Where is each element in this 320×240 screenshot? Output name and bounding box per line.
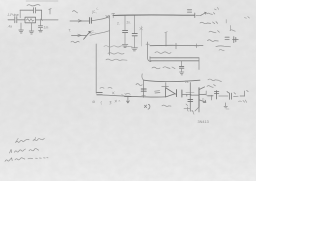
svg-text:{: { <box>101 100 103 104</box>
wire audio bus left segment <box>103 95 166 97</box>
crystal Y1 box <box>25 17 36 23</box>
Q1 emitter stroke with arrow <box>199 100 206 103</box>
label top-right small <box>214 7 218 9</box>
wire filter bottom rail <box>144 80 200 81</box>
svg-text:]t: ]t <box>110 100 112 104</box>
marks above bus <box>122 94 127 96</box>
ground below C8 <box>180 72 184 75</box>
label filter row <box>155 52 171 54</box>
transistor Q1 (3N413) body bar <box>198 88 200 107</box>
label below rails <box>152 67 175 69</box>
Q1 middle stroke <box>199 93 206 95</box>
capacitor C15 into line <box>233 37 239 43</box>
handwriting line 3 <box>5 158 12 162</box>
handwriting line 2 <box>10 149 12 153</box>
stray mark y <box>192 110 194 114</box>
Q1 emitter lead down <box>198 107 200 112</box>
wire C1 down to main line <box>41 10 43 19</box>
svg-text:.4a: .4a <box>8 25 13 29</box>
op-amp U1 triangle <box>166 88 176 97</box>
capacitor C6 branch from bus <box>124 16 126 30</box>
stray dash right <box>226 108 229 110</box>
label 1 pct row <box>209 31 219 33</box>
wire C14 to jack <box>234 93 239 97</box>
node plus at rail right end <box>195 44 199 48</box>
node plus on audio bus <box>112 92 114 94</box>
node junction at C1 drop <box>41 19 43 21</box>
capacitor C2 series input plates <box>15 17 17 23</box>
capacitor C7 branch from bus <box>134 16 136 34</box>
node x mark <box>140 27 143 30</box>
wire vertical branch B (down to audio row) <box>95 44 97 93</box>
svg-text:T.: T. <box>69 29 72 33</box>
svg-text:2x.: 2x. <box>127 21 131 25</box>
wire C2 to crystal box <box>17 19 25 21</box>
label row above Q1 region <box>208 79 221 82</box>
tick right edge <box>230 26 232 30</box>
wire row2 to node <box>90 31 110 36</box>
antenna stub mark <box>49 9 51 14</box>
label paren right <box>230 30 235 31</box>
capacitor C11 coupling plates <box>177 90 182 97</box>
wire vertical into filter block <box>148 42 151 62</box>
ground below C6 <box>122 44 127 47</box>
slash mark by emitter <box>195 107 199 111</box>
capacitor C14 plates <box>227 92 232 100</box>
svg-text:2x.: 2x. <box>185 80 189 84</box>
capacitor C9 series at bend <box>97 92 102 94</box>
label near branch B foot <box>100 86 112 89</box>
wire C11 to rail <box>183 94 192 96</box>
wire vertical rail at Q1 input <box>189 83 191 112</box>
input terminal lead <box>8 19 14 21</box>
wire bus end continues <box>196 14 201 16</box>
Q1 faint right edge <box>205 91 207 95</box>
label 2N2 text row <box>200 22 218 24</box>
svg-text:J-Pulse: J-Pulse <box>8 13 19 17</box>
wire U1 output <box>175 93 176 96</box>
svg-text:3N413: 3N413 <box>198 120 209 124</box>
label far right small <box>244 17 249 19</box>
diode D1 to ground <box>125 95 131 97</box>
scan edge artifact top-left <box>26 0 58 2</box>
ground below C3 <box>39 28 41 30</box>
wire crystal to output node <box>36 19 58 21</box>
output jack J1 <box>240 91 248 97</box>
Q1 collector stroke <box>199 87 205 90</box>
tick x226 <box>225 20 227 23</box>
rail left curl <box>142 74 144 80</box>
capacitor C13 electrolytic <box>214 91 218 99</box>
ground below crystal box <box>30 23 32 31</box>
wire Q1 output <box>208 95 214 97</box>
svg-text:.1m: .1m <box>43 25 49 29</box>
ground below output <box>224 103 227 108</box>
ground below C7 <box>132 48 138 51</box>
label small below <box>219 50 224 51</box>
node tick at bus start <box>112 13 115 18</box>
arrow at bus end <box>201 12 206 15</box>
wire branch from filter bottom rail <box>143 80 145 97</box>
wire filter middle rail 1 <box>150 57 199 59</box>
label bracket below bus <box>144 104 150 109</box>
svg-text:(C.,: (C., <box>91 30 96 34</box>
label (A) near branch <box>136 84 142 86</box>
capacitor dashes above bus end <box>187 10 191 12</box>
svg-text:4t: 4t <box>92 100 95 104</box>
wire faint vertical x141 <box>140 26 142 46</box>
mark bar left of emitter <box>184 104 190 109</box>
label under U1 <box>162 105 171 106</box>
wire filter middle rail 2 <box>150 60 199 62</box>
wire filter top rail <box>150 44 203 46</box>
label V tune (mid-left upper) <box>73 11 78 13</box>
wire squiggle below <box>216 45 231 48</box>
node marks near bus join <box>106 15 109 18</box>
label ant <box>207 13 215 15</box>
ground below C2 <box>20 23 22 30</box>
label mid-left bottom <box>71 41 79 43</box>
wire row1 to node <box>92 17 109 21</box>
node tick at bus right end <box>194 13 196 18</box>
node tick on top rail <box>175 43 177 49</box>
svg-text:(..: (.. <box>97 7 100 11</box>
capacitor C10 on branch <box>141 89 146 91</box>
wire long top bus <box>113 14 194 16</box>
svg-text:x.: x. <box>119 99 122 103</box>
capacitor C1 parallel wire (top of crystal) <box>20 9 33 11</box>
capacitor dashes right-mid <box>225 37 229 39</box>
wire C13 to C14 <box>219 95 228 97</box>
label row with cap right-mid <box>208 40 219 42</box>
wire rail end ticks <box>150 57 199 70</box>
svg-text:b: b <box>203 97 205 101</box>
variable capacitor C5 arrow <box>84 31 91 39</box>
label crystal value (top-left) <box>27 5 40 6</box>
capacitor C12 plates on rail <box>188 99 193 101</box>
capacitor C4 plates row1 <box>90 18 92 24</box>
svg-text:2.: 2. <box>117 22 120 26</box>
wire row1 with arrow (varactor feed) <box>70 20 89 22</box>
wire from C1 to junction <box>36 9 41 11</box>
wire drop from bus to filter <box>165 32 167 46</box>
capacitor C3 shunt <box>39 20 41 26</box>
bracket mark on rail foot <box>187 107 193 111</box>
U1 supply tee <box>162 83 169 88</box>
label under jack <box>239 100 247 102</box>
capacitor plates before U1 <box>155 91 160 93</box>
capacitor C1 plates <box>34 8 36 13</box>
hook down at output <box>211 95 213 100</box>
handwriting line 1 (bottom-left) <box>17 137 36 142</box>
label above Q1 <box>207 85 215 88</box>
wire rail to Q1 <box>190 94 199 96</box>
annotation text block (3 lines, centre-left) <box>104 46 132 47</box>
wire vertical branch A <box>109 16 111 55</box>
wire row2 with arrow <box>72 35 87 37</box>
crystal Y1 zigzag <box>26 19 34 22</box>
capacitor C8 to ground <box>181 61 183 66</box>
